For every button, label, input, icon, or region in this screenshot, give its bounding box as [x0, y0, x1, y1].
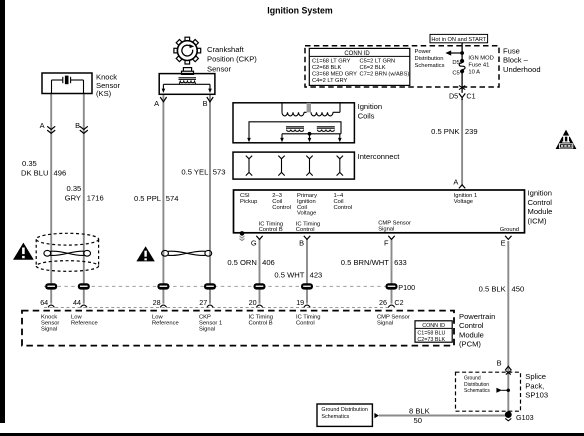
wire KS A (496): [50, 94, 52, 304]
pin B ICM: [299, 239, 304, 248]
ICM label Ground: [500, 227, 519, 233]
warning triangle 1: [13, 243, 34, 260]
coil output arrows: [247, 138, 341, 142]
wire fuse to connector: [461, 71, 463, 93]
wire ground 450 from ICM E to splice: [507, 241, 509, 415]
CKP mounting stub: [182, 68, 194, 75]
svg-text:IC TimingControl B: IC TimingControl B: [249, 315, 273, 327]
label 8 BLK 50: [409, 407, 430, 425]
label 0.5 WHT 423: [274, 271, 322, 280]
svg-text:406: 406: [262, 258, 275, 267]
svg-text:26: 26: [379, 298, 387, 307]
svg-text:423: 423: [310, 271, 323, 280]
wire 8 BLK 50 to G103: [379, 415, 508, 417]
label Crankshaft Position (CKP) Sensor: [207, 45, 257, 73]
svg-text:A: A: [154, 99, 159, 108]
svg-text:0.5 WHT: 0.5 WHT: [274, 271, 304, 280]
ICM label CSI Pickup: [240, 193, 257, 205]
coil secondary windings: [282, 103, 340, 116]
svg-text:DK BLU: DK BLU: [21, 168, 48, 177]
svg-text:C1=58 BLU: C1=58 BLU: [417, 331, 445, 337]
label Splice Pack SP103: [525, 372, 548, 400]
svg-text:20: 20: [249, 298, 257, 307]
ignition control module ICM box: [234, 190, 525, 233]
svg-text:KnockSensorSignal: KnockSensorSignal: [41, 315, 59, 333]
label 0.35 GRY 1716: [65, 184, 104, 203]
pin 44: [73, 298, 81, 307]
ground G103: [505, 411, 534, 422]
label 0.5 BLK 450: [479, 285, 525, 294]
label 0.5 PPL 574: [134, 194, 179, 203]
connector fork ICM A: [459, 185, 465, 189]
splice pack SP103 dashed box: [456, 372, 521, 411]
crankshaft position sensor gear icon: [174, 37, 201, 64]
connector fork G: [256, 236, 262, 240]
svg-text:C5: C5: [452, 71, 459, 77]
svg-text:P100: P100: [398, 283, 415, 292]
junction dot fuse feed: [460, 51, 464, 55]
connector fork CKP B: [207, 97, 213, 102]
pin 27: [199, 298, 207, 307]
coil primary windings: [282, 127, 341, 139]
ICM label Primary Ignition Coil Voltage: [297, 193, 317, 217]
P100 terminal CKP B: [204, 283, 216, 289]
label 0.5 YEL 573: [181, 168, 225, 177]
P100 terminal CKP A: [157, 283, 169, 289]
ICM label IC Timing Control: [296, 221, 320, 233]
wire IC timing control (423): [306, 239, 308, 304]
svg-text:573: 573: [213, 168, 226, 177]
twisted pair KS wires: [44, 250, 91, 256]
label 0.35 DK BLU 496: [21, 159, 66, 177]
pin 28: [153, 298, 161, 307]
connector fork pin 20: [256, 305, 262, 307]
connector chevrons KS A: [47, 126, 55, 133]
ICM label IC Timing Control B: [259, 221, 283, 233]
label Interconnect: [358, 152, 401, 161]
svg-text:0.35: 0.35: [67, 184, 82, 193]
ICM label CMP Sensor Signal: [378, 221, 411, 233]
label Fuse Block - Underhood: [503, 46, 541, 74]
interconnect box: [233, 152, 354, 179]
ICM label Ignition 1 Voltage: [454, 193, 478, 205]
label 0.5 BRN/WHT 633: [341, 258, 407, 267]
CSI pickup stub dot: [240, 231, 245, 241]
svg-text:A: A: [40, 121, 45, 130]
pin A ICM: [453, 178, 458, 187]
twisted pair shield (dashed cylinder): [36, 233, 98, 271]
connector fork pin 27: [207, 305, 213, 307]
ICM label 1-4 Coil Control: [334, 193, 353, 211]
svg-text:C2: C2: [394, 298, 403, 307]
svg-text:0.5 BRN/WHT: 0.5 BRN/WHT: [341, 258, 389, 267]
svg-text:Hot in ON and START: Hot in ON and START: [431, 37, 486, 43]
fuse block underhood dashed box: [305, 46, 499, 87]
svg-text:450: 450: [512, 285, 525, 294]
ignition coils box: [233, 103, 354, 143]
svg-text:PrimaryIgnitionCoilVoltage: PrimaryIgnitionCoilVoltage: [297, 193, 317, 217]
svg-text:50: 50: [414, 416, 422, 425]
PCM label Low Reference (44): [71, 315, 98, 327]
interconnect terminals: [246, 156, 343, 176]
svg-text:C2=73 BLK: C2=73 BLK: [417, 337, 445, 343]
svg-text:E: E: [501, 239, 506, 248]
fuse IGN MOD Fuse 41 10A: [452, 56, 493, 77]
pass-through X at fuse block edge: [459, 86, 465, 90]
arrow from GDS box to wire: [374, 413, 379, 418]
PCM label Low Reference (28): [152, 315, 179, 327]
pin 64: [40, 298, 48, 307]
svg-text:B: B: [497, 358, 502, 367]
pin F ICM: [384, 239, 389, 248]
svg-text:Ground: Ground: [500, 227, 519, 233]
P100 terminal knock B: [78, 283, 90, 289]
warning triangle 2: [136, 246, 154, 261]
label 0.5 ORN 406: [227, 258, 274, 267]
svg-text:B: B: [203, 99, 208, 108]
label Powertrain Control Module (PCM): [459, 312, 495, 349]
PCM label IC Timing Control B: [249, 315, 273, 327]
svg-text:0.35: 0.35: [22, 159, 37, 168]
connector fork pin 19: [304, 305, 310, 307]
pin B CKP: [203, 99, 208, 108]
svg-text:1716: 1716: [87, 193, 104, 202]
svg-text:28: 28: [153, 298, 161, 307]
svg-text:B: B: [75, 121, 80, 130]
pin 26 C2: [379, 298, 404, 307]
ICM label 2-3 Coil Control: [272, 193, 291, 211]
connector fork splice B: [505, 366, 511, 370]
connector fork B: [304, 236, 310, 240]
svg-text:64: 64: [40, 298, 48, 307]
svg-text:27: 27: [199, 298, 207, 307]
powertrain control module PCM dashed box: [22, 311, 454, 346]
label P100: [398, 283, 415, 292]
svg-text:8 BLK: 8 BLK: [409, 407, 430, 416]
connector fork pin 64: [48, 305, 54, 307]
svg-text:G: G: [251, 239, 257, 248]
svg-text:574: 574: [166, 194, 179, 203]
pin 20: [249, 298, 257, 307]
wire hot to fuse: [461, 43, 463, 61]
P100 pass-through dashed line: [44, 285, 393, 287]
wire KS B (1716): [83, 94, 85, 304]
pin B KS: [75, 121, 80, 130]
PCM label Knock Sensor Signal: [41, 315, 59, 333]
pass-through X at splice box edge: [506, 371, 511, 375]
svg-text:F: F: [384, 239, 389, 248]
connector fork E: [505, 236, 511, 240]
pin E ICM: [501, 239, 506, 248]
knock sensor KS: [42, 73, 92, 94]
wire ignition 1 voltage 239: [461, 99, 463, 185]
svg-text:Interconnect: Interconnect: [358, 152, 401, 161]
svg-text:239: 239: [465, 127, 478, 136]
wire CMP sensor signal (633): [391, 239, 393, 304]
label Ignition Coils: [358, 102, 383, 120]
crankshaft position sensor CKP box: [159, 74, 215, 95]
svg-text:0.5 ORN: 0.5 ORN: [227, 258, 257, 267]
svg-text:C6=2 BLK: C6=2 BLK: [360, 65, 386, 71]
pin G ICM: [251, 239, 257, 248]
label Ignition Control Module (ICM): [528, 188, 553, 225]
page edge bar bottom: [0, 433, 584, 436]
P100 terminal 633: [386, 283, 398, 289]
svg-text:GRY: GRY: [65, 193, 81, 202]
wire CKP A (574): [162, 95, 164, 304]
svg-text:C1=68 LT GRY: C1=68 LT GRY: [312, 59, 351, 65]
P100 terminal 406: [254, 283, 266, 289]
PCM label CMP Sensor Signal: [377, 315, 410, 327]
svg-text:IC TimingControl B: IC TimingControl B: [259, 221, 283, 233]
svg-text:G103: G103: [516, 413, 534, 422]
pin B splice: [497, 358, 502, 367]
label Knock Sensor (KS): [96, 73, 121, 98]
svg-text:D5: D5: [452, 60, 459, 66]
svg-text:0.5 PNK: 0.5 PNK: [431, 127, 459, 136]
connector fork pin 26: [388, 305, 394, 307]
svg-text:44: 44: [73, 298, 81, 307]
svg-text:0.5 PPL: 0.5 PPL: [134, 194, 161, 203]
page edge bar left: [0, 0, 5, 423]
power distribution arrow: [445, 50, 462, 55]
svg-text:0.5 YEL: 0.5 YEL: [181, 168, 208, 177]
pin 19: [296, 298, 304, 307]
pin A KS: [40, 121, 45, 130]
svg-text:C5=2 LT GRN: C5=2 LT GRN: [360, 59, 396, 65]
PCM label IC Timing Control: [296, 315, 320, 327]
ground distribution schematics box: [317, 404, 372, 426]
svg-text:C1: C1: [466, 92, 475, 101]
connector D5 C1: [449, 92, 476, 101]
svg-text:C4=2 LT GRY: C4=2 LT GRY: [312, 78, 347, 84]
label 0.5 PNK 239: [431, 127, 477, 136]
P100 terminal knock A: [45, 283, 57, 289]
svg-text:Ignition System: Ignition System: [267, 5, 333, 15]
pin A CKP: [154, 99, 159, 108]
svg-text:496: 496: [54, 168, 67, 177]
connector fork F: [388, 236, 394, 240]
junction dot coil primaries: [308, 132, 312, 136]
svg-text:19: 19: [296, 298, 304, 307]
svg-text:B: B: [299, 239, 304, 248]
coil primary bus wire: [249, 122, 341, 139]
connector fork CKP A: [160, 97, 166, 102]
svg-text:C3=68 MED GRY: C3=68 MED GRY: [312, 72, 357, 78]
CONN ID table (PCM): [415, 321, 452, 343]
hot in ON and START box: [430, 34, 488, 43]
splice arrow to wire: [496, 388, 510, 393]
svg-text:C7=2 BRN (w/ABS): C7=2 BRN (w/ABS): [360, 72, 410, 78]
PCM label CKP Sensor 1 Signal: [199, 315, 222, 333]
svg-text:0.5 BLK: 0.5 BLK: [479, 285, 506, 294]
OBD II triangle: [556, 130, 577, 149]
svg-text:A: A: [453, 178, 458, 187]
wire IC timing control B (406): [259, 239, 261, 304]
label Power Distribution Schematics: [415, 49, 445, 69]
CONN ID table (fuse block): [309, 48, 410, 85]
connector fork pin 44: [81, 305, 87, 307]
svg-text:633: 633: [394, 258, 407, 267]
connector fork pin 28: [160, 305, 166, 307]
P100 terminal 423: [301, 283, 313, 289]
svg-text:C2=68 BLK: C2=68 BLK: [312, 65, 341, 71]
label Ground Distribution Schematics (splice): [464, 376, 490, 394]
svg-text:D5: D5: [449, 92, 458, 101]
PCM connector face dashed line: [44, 306, 392, 308]
twisted pair CKP wires: [162, 250, 212, 256]
wire CKP B (573): [209, 95, 211, 304]
connector chevrons KS B: [80, 126, 88, 133]
